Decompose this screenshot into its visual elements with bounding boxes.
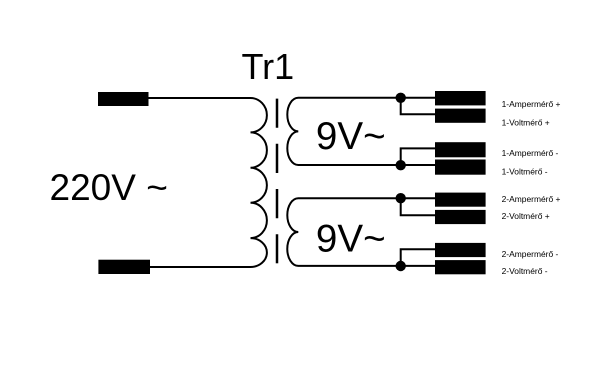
primary winding L1 of transformer Tr1 (with top and bottom lead wires) <box>149 98 267 267</box>
terminal pad: 2-Voltmero - <box>435 260 486 274</box>
terminal pad: 2-Ampermero + <box>435 193 486 207</box>
terminal pad: 2-Ampermero - <box>435 243 486 257</box>
svg-text:220V ~: 220V ~ <box>50 167 168 208</box>
terminal pad P1 (primary top-left) <box>98 92 149 106</box>
svg-text:2-Ampermérő +: 2-Ampermérő + <box>502 194 561 204</box>
svg-text:2-Ampermérő -: 2-Ampermérő - <box>502 249 559 259</box>
transformer core (dashed line) <box>276 99 279 264</box>
svg-text:9V~: 9V~ <box>316 115 386 158</box>
svg-text:1-Ampermérő +: 1-Ampermérő + <box>502 99 561 109</box>
secondary winding L2 (top 9V) with lead wires <box>287 98 435 165</box>
svg-text:9V~: 9V~ <box>316 218 386 261</box>
wire: L-stub from node J3 down to 2-Voltmero+ pad <box>401 198 435 215</box>
terminal pad P2 (primary bottom-left) <box>98 260 150 274</box>
svg-text:2-Voltmérő -: 2-Voltmérő - <box>502 266 548 276</box>
svg-text:1-Ampermérő -: 1-Ampermérő - <box>502 148 559 158</box>
svg-text:2-Voltmérő +: 2-Voltmérő + <box>502 211 550 221</box>
node J1 (junction dot) <box>396 93 406 103</box>
terminal pad: 2-Voltmero + <box>435 210 486 224</box>
terminal pad: 1-Voltmero + <box>435 109 486 123</box>
terminal pad: 1-Voltmero - <box>435 160 486 175</box>
wire: L-stub from node J2 up to 1-Ampermero- pad <box>401 148 435 165</box>
terminal pad: 1-Ampermero + <box>435 91 486 105</box>
wire: L-stub from node J1 down to 1-Voltmero+ pad <box>401 98 435 115</box>
svg-text:1-Voltmérő +: 1-Voltmérő + <box>502 118 550 128</box>
node J4 (junction dot) <box>396 261 406 271</box>
wire: L-stub from node J4 up to 2-Ampermero- pad <box>401 249 435 266</box>
secondary winding L3 (bottom 9V) with lead wires <box>287 198 435 266</box>
node J3 (junction dot) <box>396 193 406 203</box>
svg-text:Tr1: Tr1 <box>242 46 295 87</box>
svg-text:1-Voltmérő -: 1-Voltmérő - <box>502 166 548 176</box>
node J2 (junction dot) <box>396 160 406 170</box>
terminal pad: 1-Ampermero - <box>435 142 486 157</box>
